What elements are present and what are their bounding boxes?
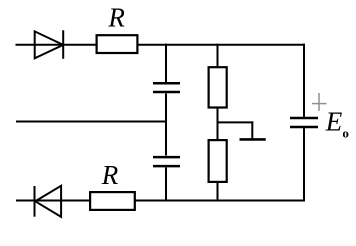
plus sign (312, 93, 327, 111)
wire middle input (16, 121, 167, 123)
capacitor C2 (153, 157, 180, 166)
wire capacitor branch (165, 44, 167, 202)
capacitor C1 (153, 83, 180, 92)
wire to ground (217, 121, 254, 139)
capacitor Eo output (290, 118, 318, 127)
wire resistor branch (217, 44, 219, 202)
wire top rail (16, 44, 306, 46)
ground (240, 138, 266, 141)
svg-text:o: o (342, 126, 349, 141)
wire right vertical lower (303, 128, 305, 202)
svg-text:R: R (107, 3, 125, 33)
wire bottom rail (16, 200, 305, 202)
diode D2 bottom (35, 186, 62, 217)
label Eo (325, 106, 349, 140)
diode D1 top (35, 30, 64, 59)
resistor vertical lower (209, 140, 227, 182)
resistor R1 top (97, 35, 138, 53)
resistor vertical upper (209, 67, 227, 107)
svg-text:E: E (325, 106, 343, 136)
svg-text:R: R (101, 160, 119, 190)
wire right vertical upper (303, 44, 305, 118)
resistor R2 bottom (90, 192, 135, 210)
